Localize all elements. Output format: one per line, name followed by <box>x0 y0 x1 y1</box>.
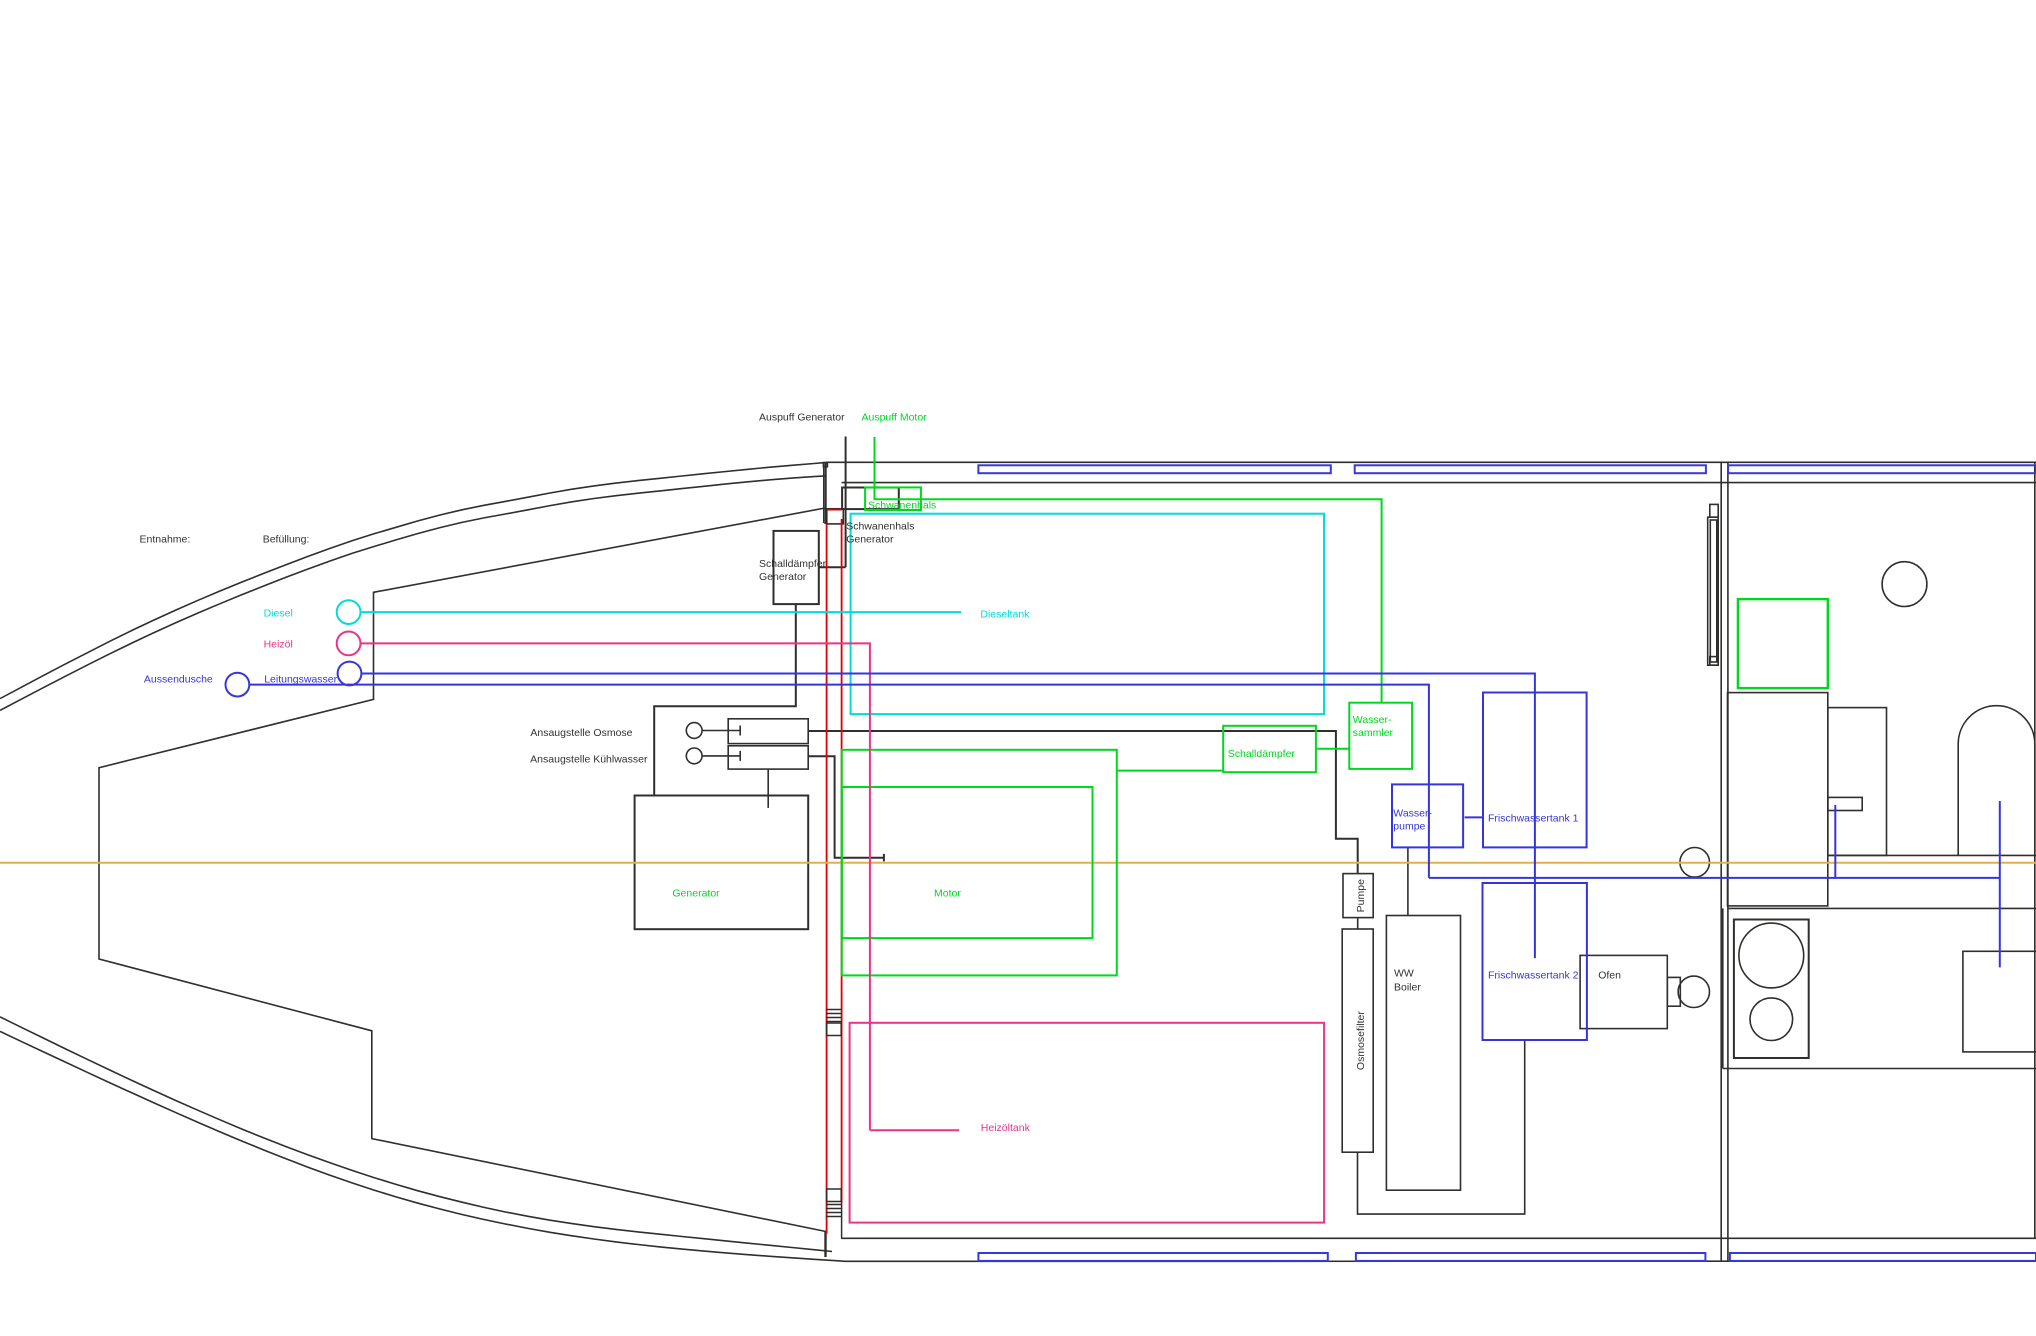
window bar bottom 3 <box>1730 1253 2036 1261</box>
svg-text:WW: WW <box>1394 968 1414 980</box>
Schalldaempfer box <box>1223 726 1316 772</box>
pipe Schalldaempfer Generator to Generator <box>654 604 796 795</box>
Ansaugstelle Kuehlwasser inlet circle <box>686 748 702 764</box>
red line fore bulkhead A <box>826 524 828 1234</box>
hull bottom curve outer <box>0 1031 2036 1261</box>
Dieseltank box <box>851 514 1324 714</box>
svg-text:sammler: sammler <box>1353 727 1394 739</box>
Ofen box <box>1580 955 1667 1028</box>
Leitungswasser line to tanks <box>361 674 1535 959</box>
Schalldaempfer Generator box <box>774 531 819 604</box>
hull deck sheer curve outer <box>0 463 825 699</box>
svg-text:Pumpe: Pumpe <box>1355 879 1367 912</box>
link Motor to Schalldaempfer <box>1117 770 1223 772</box>
ceiling line engine room and aft <box>842 482 2036 484</box>
circle on centreline at wall <box>1680 848 1710 878</box>
Auspuff Motor pipe <box>875 437 922 499</box>
fore bulkhead inner line <box>823 465 825 523</box>
svg-text:Befüllung:: Befüllung: <box>263 534 310 546</box>
svg-text:Auspuff Generator: Auspuff Generator <box>759 412 845 424</box>
Osmose pipe to Pumpe <box>808 731 1357 874</box>
Ansaugstelle double box <box>728 719 808 744</box>
link Wasserpumpe to FWT1 <box>1465 816 1483 818</box>
cabinet faucet drop <box>1834 805 1836 878</box>
Auspuff Generator pipe <box>819 437 846 568</box>
svg-text:Wasser-: Wasser- <box>1393 807 1432 819</box>
window bar top 2 <box>1355 465 1706 473</box>
link Schalldaempfer to Wassersammler <box>1317 748 1349 750</box>
engine room floor line <box>841 1237 2036 1239</box>
fitting upper on red lines <box>826 1010 842 1022</box>
svg-text:Schalldämpfer: Schalldämpfer <box>1228 748 1296 760</box>
exhaust line to Wassersammler <box>921 499 1382 703</box>
pipe Osmosefilter to FWT2 bottom <box>1358 1040 1525 1214</box>
Pumpe box <box>1343 874 1373 918</box>
bow inner compartment outline <box>99 508 826 1231</box>
Schwanenhals black duct box <box>842 488 899 510</box>
svg-text:Auspuff Motor: Auspuff Motor <box>862 412 928 424</box>
svg-text:Schwanenhals: Schwanenhals <box>846 520 914 532</box>
cabinet rect <box>1828 708 1887 856</box>
svg-text:Diesel: Diesel <box>264 608 293 620</box>
svg-text:Entnahme:: Entnahme: <box>140 534 191 546</box>
link Pumpe to Osmosefilter <box>1357 918 1359 929</box>
red line fore bulkhead B <box>841 519 843 1203</box>
red bulkhead lines <box>827 510 842 1234</box>
Motor inner box <box>842 787 1093 938</box>
svg-text:Motor: Motor <box>934 888 961 900</box>
svg-text:Frischwassertank 2: Frischwassertank 2 <box>1488 969 1579 981</box>
galley riser <box>1999 801 2001 967</box>
Osmosefilter box <box>1342 929 1373 1152</box>
deck junction block <box>823 463 827 467</box>
Diesel fill circle <box>337 600 361 624</box>
svg-text:Generator: Generator <box>672 888 720 900</box>
svg-text:Ansaugstelle Kühlwasser: Ansaugstelle Kühlwasser <box>530 753 648 765</box>
Ansaugstelle Osmose inlet circle <box>686 723 702 739</box>
svg-text:Boiler: Boiler <box>1394 982 1421 994</box>
svg-text:Aussendusche: Aussendusche <box>144 673 213 685</box>
Motor outer box <box>842 750 1117 976</box>
Kuehlwasser pipe to Motor <box>808 756 884 861</box>
svg-text:Wasser-: Wasser- <box>1353 714 1392 726</box>
Wasserpumpe box <box>1392 784 1463 847</box>
window bars <box>978 465 2036 1261</box>
hull bottom curve inner <box>0 1017 832 1252</box>
window bar top 1 <box>978 465 1330 473</box>
stove rect <box>1734 920 1809 1059</box>
svg-text:Heizöltank: Heizöltank <box>981 1122 1031 1134</box>
Leitungswasser circle <box>338 662 362 686</box>
stove burner large <box>1739 923 1804 988</box>
svg-text:Generator: Generator <box>759 571 807 583</box>
red gooseneck line <box>828 509 842 511</box>
counter bottom <box>1723 908 2036 1068</box>
svg-text:Leitungswasser: Leitungswasser <box>264 673 337 685</box>
svg-text:Frischwassertank 1: Frischwassertank 1 <box>1488 813 1579 825</box>
circle in galley top <box>1882 562 1927 607</box>
WW Boiler box <box>1386 916 1460 1191</box>
counter line below <box>1728 907 2036 909</box>
svg-text:Dieseltank: Dieseltank <box>980 609 1030 621</box>
galley right wall <box>2034 462 2036 1238</box>
wall stub to floor <box>841 1203 843 1239</box>
window bar bottom 2 <box>1356 1253 1706 1261</box>
sink square <box>1963 951 2036 1052</box>
svg-text:Osmosefilter: Osmosefilter <box>1355 1011 1367 1070</box>
Ofen handle stub <box>1667 977 1680 1006</box>
svg-text:Ansaugstelle Osmose: Ansaugstelle Osmose <box>530 727 632 739</box>
Ofen handle circle <box>1678 976 1709 1007</box>
stove burner small <box>1750 998 1793 1041</box>
Heizoeltank box <box>850 1023 1325 1223</box>
Generator box <box>635 796 809 930</box>
hull deck sheer curve inner <box>0 476 825 711</box>
fore bulkhead upper <box>824 462 826 524</box>
window bar top 3 <box>1728 465 2036 473</box>
galley green locker square <box>1738 599 1828 688</box>
svg-text:Ofen: Ofen <box>1598 969 1621 981</box>
door leaf tall <box>1708 517 1719 665</box>
Frischwassertank 1 <box>1483 693 1587 848</box>
red line fittings <box>826 1010 842 1239</box>
Aussendusche circle <box>226 673 250 697</box>
fore bulkhead lower stub <box>824 1231 826 1257</box>
Aussendusche line via Wasserpumpe <box>249 685 2000 878</box>
pipe Ansaugstelle box down into Generator <box>767 769 769 808</box>
Diesel fill line <box>361 611 962 613</box>
Schwanenhals Generator gooseneck <box>827 509 844 524</box>
svg-text:Heizöl: Heizöl <box>264 639 293 651</box>
cabinet handle notch <box>1828 797 1862 810</box>
Heizoel fill line <box>361 643 960 1130</box>
svg-text:pumpe: pumpe <box>1393 821 1425 833</box>
door leaf small top <box>1710 504 1718 517</box>
svg-text:Generator: Generator <box>846 534 894 546</box>
door leaf inner line <box>1710 520 1717 662</box>
deck top line <box>826 461 2036 463</box>
Frischwassertank 2 <box>1483 883 1587 1040</box>
shower arch <box>1958 706 2035 856</box>
pipe Wasserpumpe to WW Boiler <box>1407 847 1409 915</box>
door leaf bottom cap <box>1710 657 1718 666</box>
wall aft (engine room / galley) <box>1720 462 1722 1260</box>
svg-text:Schalldämpfer: Schalldämpfer <box>759 558 827 570</box>
fitting lower on red lines <box>827 1189 842 1202</box>
centreline <box>0 862 2036 864</box>
svg-text:Schwanenhals: Schwanenhals <box>868 500 936 512</box>
Heizoel fill circle <box>337 632 361 656</box>
Wassersammler box <box>1349 703 1412 769</box>
counter edge at arch <box>1828 854 2036 856</box>
Schwanenhals green box <box>865 487 921 510</box>
window bar bottom 1 <box>978 1253 1327 1261</box>
wardrobe big rect <box>1728 693 1828 906</box>
